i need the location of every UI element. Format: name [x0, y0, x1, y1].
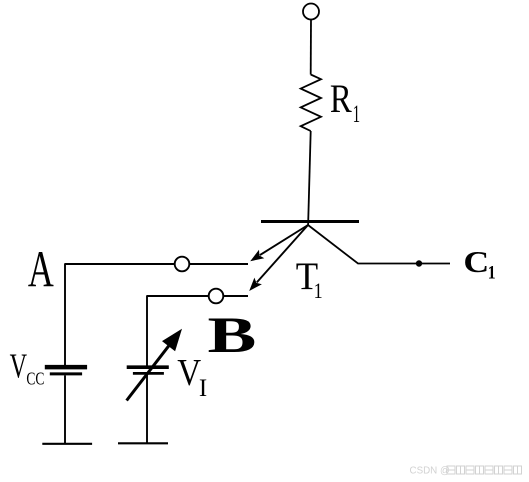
terminal circle on wire B [209, 289, 224, 304]
svg-text:I: I [199, 375, 207, 402]
label Vcc [10, 347, 45, 389]
wire B vertical down to VI source [146, 295, 148, 365]
emitter arrow to B [249, 225, 308, 291]
svg-text:R: R [330, 76, 352, 121]
label C1 [463, 245, 495, 283]
terminal circle on wire A [175, 257, 190, 272]
collector wire to C1 [308, 225, 450, 264]
source VI bottom plate [133, 372, 164, 375]
battery Vcc bottom plate [50, 372, 82, 375]
svg-text:CC: CC [26, 370, 44, 389]
emitter arrow to A [250, 225, 308, 261]
svg-text:1: 1 [353, 101, 361, 128]
wire A (horizontal) [65, 263, 248, 265]
ground (VI branch) [118, 442, 168, 444]
resistor R1 [301, 75, 321, 132]
svg-text:V: V [10, 347, 28, 385]
terminal (top) [303, 4, 319, 20]
wire: terminal to resistor [310, 20, 312, 75]
svg-text:1: 1 [488, 261, 496, 283]
wire B (horizontal) [147, 295, 248, 297]
label T1 [296, 255, 323, 304]
svg-text:1: 1 [314, 280, 323, 304]
source VI top plate [127, 365, 169, 369]
ground (Vcc branch) [42, 443, 92, 445]
watermark CSDN [410, 466, 522, 477]
svg-text:C: C [463, 245, 489, 279]
svg-text:CSDN @: CSDN @ [410, 466, 450, 477]
wire A vertical down to Vcc [64, 263, 66, 365]
wire: resistor to base bar [308, 131, 311, 226]
junction dot on C1 wire [416, 260, 422, 266]
svg-text:B: B [208, 307, 257, 364]
variability arrow through VI [127, 329, 182, 401]
transistor T1 base bar [261, 220, 359, 223]
label VI [177, 351, 207, 402]
wire: VI to ground [146, 375, 148, 444]
svg-text:V: V [177, 351, 201, 394]
wire: Vcc to ground [64, 375, 66, 443]
label R1 [330, 76, 360, 128]
svg-text:A: A [28, 240, 54, 298]
battery Vcc top plate [45, 365, 87, 370]
